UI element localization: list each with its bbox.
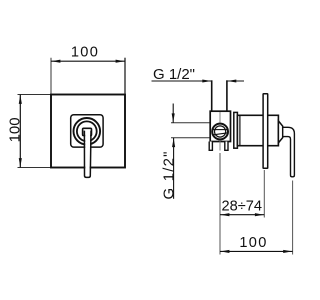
arrowhead top-dim left	[51, 60, 60, 63]
cartridge cylinder	[237, 115, 278, 145]
extension line top-left of front plate	[50, 58, 52, 94]
side port slot chord	[213, 133, 227, 135]
dimension line 100 (side view)	[220, 250, 293, 252]
arrowhead top-dim right	[116, 60, 125, 63]
body centerline (vertical)	[219, 112, 221, 151]
arrowhead pointing up at lower port line	[172, 138, 175, 147]
port extension line lower (y=137.7)	[171, 137, 210, 139]
side port inner circle	[215, 126, 226, 137]
leader line G 1/2 top, right segment	[227, 80, 244, 82]
side port outer circle	[212, 124, 228, 140]
arrowhead 28÷74 right	[255, 213, 264, 216]
svg-text:G 1/2": G 1/2"	[160, 150, 177, 199]
extension line left-top of front plate	[18, 94, 53, 96]
extension line below wall plate	[263, 170, 265, 218]
arrowhead left-dim bottom	[19, 158, 22, 167]
arrowhead 100-side right	[283, 250, 292, 253]
svg-text:100: 100	[239, 235, 267, 251]
svg-text:100: 100	[7, 117, 24, 142]
dimension line 28÷74	[220, 214, 264, 216]
escutcheon inner square	[71, 115, 103, 147]
cartridge collar line	[239, 115, 241, 145]
arrowhead left-dim top	[19, 95, 22, 104]
handle skirt outer circle	[74, 118, 101, 145]
svg-text:100: 100	[71, 44, 99, 60]
lever hub small square	[83, 128, 92, 135]
arrowhead pointing down at upper port line	[172, 113, 175, 122]
extension line top-right of front plate	[124, 58, 126, 94]
arrowhead 28÷74 left	[220, 213, 229, 216]
top supply pipe right wall	[226, 80, 228, 111]
valve body block	[210, 111, 230, 141]
side port chord horizontal	[212, 129, 227, 131]
port extension line upper (y=122.8)	[171, 122, 210, 124]
lever handle front view: white body fill	[85, 131, 90, 177]
lever handle front view: outline	[84, 131, 91, 178]
dimension extension centerline below body	[219, 153, 221, 255]
wall plate, side view	[263, 94, 268, 169]
handle nose cone	[278, 121, 282, 143]
arrowhead at pipe right wall	[227, 79, 236, 82]
bottom outlet right leg	[225, 142, 228, 151]
G 1/2 left dimension lower leader	[173, 138, 175, 199]
cartridge flange	[234, 112, 238, 148]
arrowhead at pipe left wall	[202, 79, 211, 82]
bottom outlet left leg	[209, 142, 212, 151]
extension line left-bottom of front plate	[18, 167, 53, 169]
dimension line 100 (left, front view)	[19, 95, 21, 168]
extension line from lever tip	[292, 181, 294, 255]
handle inner circle	[77, 121, 97, 141]
wall plate, front view (large square)	[51, 95, 125, 168]
lever handle, side view	[283, 127, 295, 177]
leader line G 1/2 top, left segment	[152, 80, 212, 82]
top supply pipe left wall	[211, 80, 213, 111]
G 1/2 left dimension upper leader	[172, 104, 174, 123]
arrowhead 100-side left	[220, 250, 229, 253]
dimension line 100 (top, front view)	[51, 60, 125, 62]
svg-text:28÷74: 28÷74	[222, 199, 262, 215]
